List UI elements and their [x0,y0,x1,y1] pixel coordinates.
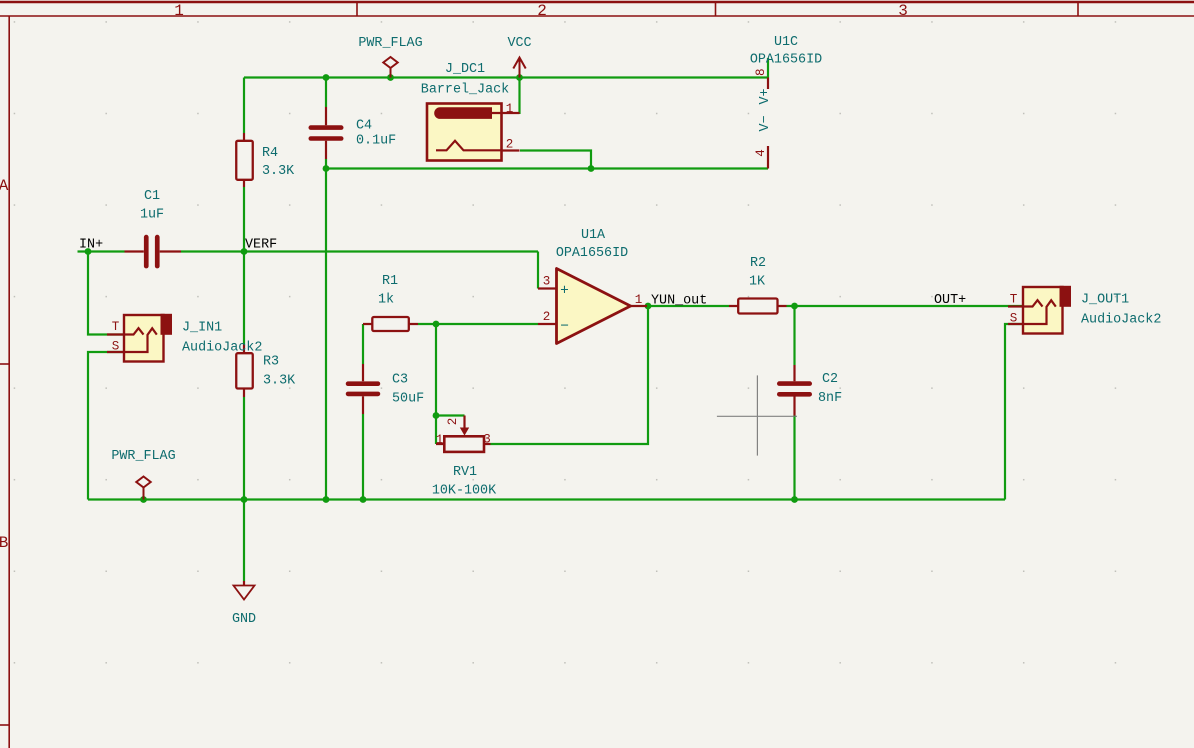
junction op-amp output [645,303,652,310]
svg-text:C3: C3 [392,373,408,388]
svg-text:2: 2 [543,310,551,324]
wire GND stem [243,500,245,582]
capacitor C2 8nF [777,365,842,416]
wire R4 bottom to VERF [243,187,245,252]
svg-text:J_OUT1: J_OUT1 [1081,293,1129,308]
cursor crosshair [717,375,797,455]
wire VERF to op-amp noninverting [537,252,539,289]
J_DC1 pin 1 [489,112,520,114]
junction GND rail C3 [360,496,367,503]
wire OUT jack sleeve down [1005,324,1023,500]
wire C2 top stem [793,306,795,365]
wire jack sleeve to ground rail [88,352,124,500]
svg-text:2: 2 [506,138,514,152]
J_IN1 pin S [107,351,124,353]
svg-text:−: − [560,319,569,335]
U1A pin 1 (output) [630,305,647,307]
op-amp U1A OPA1656ID [538,228,647,344]
resistor R1 1k [363,274,418,331]
wire IN+ down to jack tip [88,252,124,335]
audio jack connector J_IN1 AudioJack2 [107,314,262,362]
resistor R2 1K [729,256,787,314]
U1C pin 4 V- [767,146,769,169]
svg-text:OPA1656ID: OPA1656ID [556,246,628,261]
barrel jack connector J_DC1 Barrel_Jack [421,62,520,161]
svg-text:U1A: U1A [581,228,606,243]
ground symbol GND [232,581,256,627]
svg-text:3: 3 [543,275,551,289]
wire GND column from C4 [325,169,327,500]
wire VCC top rail [244,76,768,78]
U1C pin 8 V+ [767,78,769,90]
net label OUT+ [934,293,966,308]
junction VERF [241,248,248,255]
svg-text:AudioJack2: AudioJack2 [182,341,262,356]
svg-text:8: 8 [754,68,768,76]
J_OUT1 pin S [1008,323,1023,325]
svg-text:+: + [560,284,569,300]
audio jack connector J_OUT1 AudioJack2 [1008,286,1161,334]
potentiometer RV1 10K-100K [432,416,497,499]
svg-text:VERF: VERF [245,238,277,253]
net label VERF [245,238,277,253]
junction GND rail C2 [791,496,798,503]
svg-text:PWR_FLAG: PWR_FLAG [358,36,422,51]
svg-text:V−: V− [758,115,773,131]
svg-text:R4: R4 [262,146,278,161]
svg-text:S: S [112,340,120,354]
junction wiper node [433,412,440,419]
svg-text:J_DC1: J_DC1 [445,62,485,77]
net label YUN_out [651,294,707,309]
svg-text:GND: GND [232,612,256,627]
svg-text:PWR_FLAG: PWR_FLAG [111,449,175,464]
junction GND rail C4 [323,496,330,503]
svg-text:1: 1 [506,102,514,116]
junction inverting node [433,321,440,328]
wire op-amp output to R2 [647,305,729,307]
junction J_DC1 pin2 rail [588,165,595,172]
svg-text:RV1: RV1 [453,465,477,480]
wire C2 bottom stem [793,416,795,500]
U1A pin 2 (inverting) [538,323,557,325]
svg-text:C2: C2 [822,372,838,387]
J_DC1 pin 2 [436,141,520,151]
svg-text:1: 1 [436,433,444,447]
junction IN+ [85,248,92,255]
svg-text:C4: C4 [356,119,372,134]
svg-text:4: 4 [754,149,768,157]
svg-text:8nF: 8nF [818,391,842,406]
junction GND rail R3 [241,496,248,503]
svg-text:Barrel_Jack: Barrel_Jack [421,83,509,98]
capacitor C3 50uF [346,364,424,414]
J_OUT1 pin T [1008,305,1023,307]
wire R3 bottom [243,397,245,500]
svg-text:T: T [112,320,120,334]
wire feedback column [435,324,437,444]
svg-text:50uF: 50uF [392,392,424,407]
svg-text:1uF: 1uF [140,208,164,223]
junction R2 out [791,303,798,310]
svg-text:10K-100K: 10K-100K [432,484,497,499]
power symbol VCC [507,36,531,78]
resistor R4 3.3K [236,133,295,187]
svg-text:2: 2 [537,2,547,20]
svg-text:R3: R3 [263,355,279,370]
svg-text:IN+: IN+ [79,238,103,253]
svg-text:C1: C1 [144,189,160,204]
capacitor C1 1uF [125,189,182,268]
capacitor C4 0.1uF [309,107,397,159]
power flag PWR_FLAG (bottom) [111,449,175,500]
wire C4 bottom stem [325,159,327,169]
junction PWR_FLAG bottom [140,496,147,503]
J_IN1 pin T [107,333,124,335]
svg-text:R2: R2 [750,256,766,271]
svg-text:1K: 1K [749,275,766,290]
wire inverting input [418,323,538,325]
svg-text:B: B [0,534,8,552]
svg-text:OPA1656ID: OPA1656ID [750,53,822,68]
resistor R3 3.3K [236,345,296,398]
wire R3 top [243,252,245,345]
wire stub above U1C pin 8 [767,58,769,78]
wire VCC drop to J_DC1 pin1 [518,78,520,115]
svg-text:U1C: U1C [774,35,798,50]
wire ground bottom rail [88,498,1005,500]
svg-text:S: S [1010,312,1018,326]
wire RV1 pin3 feedback to output [491,306,649,444]
svg-text:0.1uF: 0.1uF [356,134,396,149]
svg-text:AudioJack2: AudioJack2 [1081,313,1161,328]
svg-text:A: A [0,177,9,195]
wire R1 left to C3 [362,324,364,364]
junction C4 mid rail [323,165,330,172]
wire R4 top [243,78,245,134]
svg-text:3: 3 [483,433,491,447]
svg-text:R1: R1 [382,274,398,289]
junction PWR_FLAG top [387,74,394,81]
op-amp power unit U1C OPA1656ID [750,35,822,169]
svg-text:1k: 1k [378,293,394,308]
net label IN+ [79,238,103,253]
wire C3 bottom [362,414,364,500]
junction VCC [516,74,523,81]
svg-text:2: 2 [446,418,460,426]
U1A pin 3 (non-inverting) [538,287,557,289]
wire VERF rail [78,250,539,252]
svg-text:3.3K: 3.3K [263,374,296,389]
svg-text:OUT+: OUT+ [934,293,966,308]
svg-text:V+: V+ [758,88,773,104]
wire J_DC1 pin2 to mid rail [520,151,591,169]
wire C4 top stem [325,78,327,108]
svg-text:VCC: VCC [507,36,531,51]
junction C4 top [323,74,330,81]
svg-text:T: T [1010,293,1018,307]
wire wiper link [436,414,465,416]
power flag PWR_FLAG (top) [358,36,422,78]
svg-text:3: 3 [898,2,908,20]
svg-text:1: 1 [635,293,643,307]
wire V- mid rail [326,167,768,169]
svg-text:1: 1 [174,2,184,20]
svg-text:3.3K: 3.3K [262,164,295,179]
svg-text:YUN_out: YUN_out [651,294,707,309]
wire R2 to OUT jack tip [787,305,1024,307]
svg-text:J_IN1: J_IN1 [182,321,222,336]
